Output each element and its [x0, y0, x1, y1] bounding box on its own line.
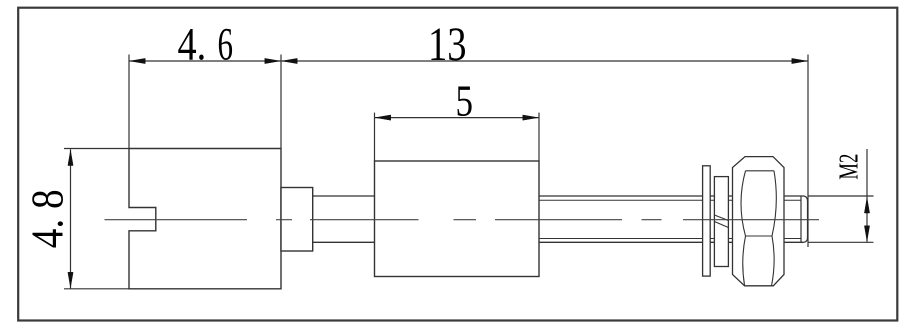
- svg-text:M2: M2: [833, 154, 863, 180]
- centerline (dash-dot axis): [105, 219, 820, 221]
- svg-text:13: 13: [428, 18, 467, 71]
- extension lines for 4.8 dim: [64, 148, 129, 150]
- M2 extension lines: [808, 195, 874, 197]
- extension line left of 4.6 dim: [128, 55, 130, 149]
- svg-text:4.: 4.: [178, 19, 207, 71]
- mid cylinder (5 long): [375, 161, 540, 277]
- threaded shaft outer lines: [539, 195, 804, 197]
- hex nut outline: [733, 157, 785, 286]
- nut right chamfer arc: [772, 171, 777, 286]
- dimension 4.8 vertical: [70, 149, 72, 288]
- extension line right end of 13 dim: [807, 55, 809, 248]
- svg-text:6: 6: [218, 19, 234, 71]
- spring lock washer: [714, 177, 728, 267]
- spring washer split lines: [714, 215, 728, 221]
- extension line between 4.6 and 13 dims: [280, 55, 282, 149]
- dimension line 13: [281, 60, 808, 62]
- nut upper face edge: [746, 170, 775, 172]
- dimension line 4.6: [129, 60, 281, 62]
- dimension 5: [374, 113, 376, 161]
- threaded shaft inner (root) lines: [539, 199, 801, 201]
- motor body with left slot notch: [129, 149, 281, 289]
- plain shaft section: [313, 195, 375, 197]
- nut lower face edge: [746, 235, 773, 237]
- svg-text:5: 5: [456, 76, 474, 126]
- shaft end cap: [800, 196, 802, 242]
- flat washer: [703, 166, 711, 276]
- nut left chamfer arc: [741, 171, 746, 286]
- svg-text:4. 8: 4. 8: [23, 189, 73, 248]
- M2 dimension line: [866, 149, 868, 242]
- shaft bushing at body exit: [281, 188, 313, 252]
